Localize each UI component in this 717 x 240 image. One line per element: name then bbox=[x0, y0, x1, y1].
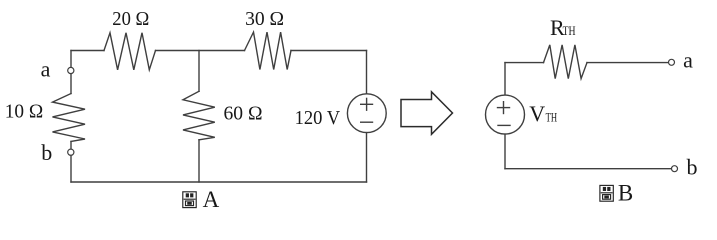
wire terminal a to 10ohm bbox=[70, 74, 72, 94]
wire top-left segment (figure A) bbox=[71, 50, 104, 52]
svg-text:TH: TH bbox=[563, 23, 576, 38]
label terminal a (figure A) bbox=[41, 57, 51, 82]
svg-text:60 Ω: 60 Ω bbox=[224, 104, 263, 125]
wire top-left segment (figure B) bbox=[505, 62, 544, 64]
label terminal b (figure B) bbox=[687, 155, 698, 180]
caption letter A (figure A) bbox=[203, 187, 220, 212]
wire left branch lower (terminal b to bottom) bbox=[70, 155, 72, 182]
wire 10ohm to terminal b bbox=[70, 142, 72, 150]
wire left branch lower (figure B) bbox=[504, 134, 506, 169]
label RTH bbox=[550, 15, 576, 40]
resistor R 60ohm bbox=[183, 91, 215, 140]
wire left branch upper (corner to terminal a) bbox=[70, 51, 72, 68]
svg-text:a: a bbox=[41, 57, 51, 82]
wire right branch lower (source to bottom) bbox=[366, 133, 368, 182]
label 120 V bbox=[295, 108, 341, 129]
wire left branch upper (figure B) bbox=[504, 63, 506, 96]
svg-text:B: B bbox=[618, 180, 633, 205]
svg-text:A: A bbox=[203, 187, 220, 211]
wire top-right segment (figure A) bbox=[291, 50, 367, 52]
svg-text:a: a bbox=[683, 47, 693, 72]
svg-text:b: b bbox=[41, 140, 52, 165]
svg-text:TH: TH bbox=[546, 110, 558, 125]
VTH source plus sign bbox=[498, 102, 510, 114]
terminal b (figure B) bbox=[672, 166, 678, 172]
resistor RTH bbox=[544, 45, 588, 79]
120V source plus sign bbox=[361, 98, 373, 110]
wire top-middle segment (figure A) bbox=[156, 50, 245, 52]
label 30 ohm bbox=[245, 9, 284, 30]
VTH source minus sign bbox=[498, 124, 510, 126]
terminal a (figure A) bbox=[68, 67, 74, 73]
label 10 ohm bbox=[5, 101, 44, 122]
terminal a (figure B) bbox=[669, 59, 675, 65]
voltage source 120V circle bbox=[347, 94, 386, 133]
label VTH bbox=[529, 101, 557, 126]
svg-text:10 Ω: 10 Ω bbox=[5, 101, 44, 122]
svg-text:30 Ω: 30 Ω bbox=[245, 9, 284, 30]
caption letter B (figure B) bbox=[618, 180, 633, 205]
label terminal b (figure A) bbox=[41, 140, 52, 165]
wire right branch upper (corner to source) bbox=[366, 51, 368, 94]
wire top-right segment to terminal a (figure B) bbox=[587, 62, 668, 64]
wire middle branch lower (60ohm to bottom) bbox=[198, 140, 200, 182]
terminal b (figure A) bbox=[68, 149, 74, 155]
voltage source VTH circle bbox=[486, 95, 525, 134]
label 20 ohm bbox=[112, 9, 149, 30]
svg-text:20 Ω: 20 Ω bbox=[112, 9, 149, 30]
svg-text:b: b bbox=[687, 155, 698, 180]
caption glyph "tu" (figure B) bbox=[600, 185, 613, 201]
wire bottom to terminal b (figure B) bbox=[505, 168, 671, 170]
resistor R 20ohm bbox=[104, 33, 156, 70]
svg-text:120 V: 120 V bbox=[295, 108, 341, 129]
wire middle branch upper (node to 60ohm) bbox=[198, 51, 200, 92]
caption glyph "tu" (figure A) bbox=[183, 192, 196, 208]
label terminal a (figure B) bbox=[683, 47, 693, 72]
block arrow between circuits bbox=[401, 92, 453, 135]
resistor R 30ohm bbox=[245, 32, 292, 69]
wire bottom (figure A) bbox=[71, 181, 367, 183]
svg-text:V: V bbox=[529, 101, 545, 126]
label 60 ohm bbox=[224, 104, 263, 125]
120V source minus sign bbox=[361, 121, 373, 123]
resistor R 10ohm bbox=[53, 94, 86, 142]
